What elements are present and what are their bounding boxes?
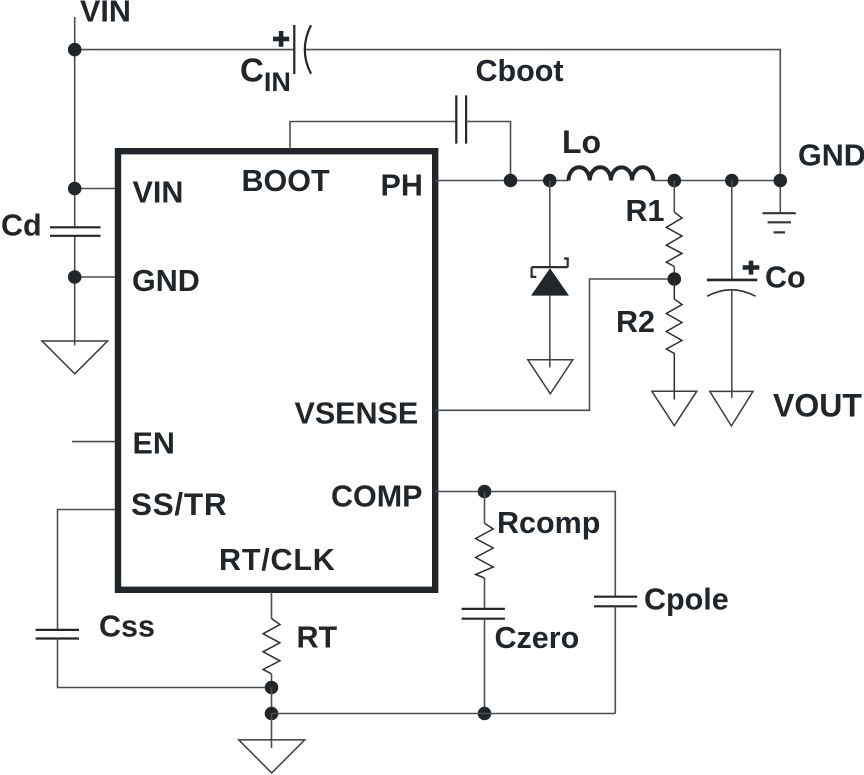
svg-text:VIN: VIN [133, 176, 184, 210]
wire EN stub [72, 441, 115, 443]
capacitor Co straight plate [707, 279, 757, 282]
capacitor Co curved plate [707, 290, 756, 296]
junction dot COMP [478, 485, 492, 499]
wire diode cathode to ground [549, 296, 551, 368]
resistor R2 [666, 279, 682, 400]
wire Rcomp top stub [484, 492, 486, 524]
wire left rail lower (below Cd) [74, 236, 76, 346]
svg-text:PH: PH [381, 169, 423, 203]
ground symbol below Co [710, 391, 753, 426]
svg-text:Lo: Lo [562, 124, 601, 160]
wire top rail VIN to CIN [75, 49, 294, 51]
svg-text:R1: R1 [626, 194, 665, 228]
svg-text:Cpole: Cpole [644, 583, 729, 617]
svg-text:BOOT: BOOT [242, 164, 330, 198]
wire R1 bottom stub [673, 267, 675, 280]
wire R1 top stub [673, 181, 675, 213]
wire Css bottom to RT node [58, 639, 272, 688]
wire COMP rail [435, 492, 615, 597]
junction dot Co top [725, 174, 739, 188]
capacitor Cd plates [50, 227, 101, 236]
wire RT node to bottom rail [271, 688, 273, 714]
capacitor Css plates [36, 630, 79, 639]
wire top rail CIN to GND corner [306, 50, 780, 213]
IC U1 box [118, 151, 435, 590]
capacitor Cboot plates [456, 95, 466, 143]
junction dot VIN top [68, 43, 82, 57]
resistor R1 [666, 212, 682, 266]
wire Rcomp to Czero [484, 578, 486, 609]
junction dot VIN pin [68, 182, 82, 196]
capacitor CIN plus sign [273, 31, 289, 47]
wire RT bottom stub [271, 674, 273, 688]
junction dot Czero bottom [478, 707, 492, 721]
wire RT/CLK pin stub [271, 592, 273, 619]
capacitor Cpole plates [594, 597, 637, 607]
svg-text:Cd: Cd [1, 209, 42, 243]
wire Co bottom stub [731, 290, 733, 398]
junction dot Cboot/PH [504, 174, 518, 188]
wire bottom rail [272, 713, 616, 715]
ground symbol below diode [528, 360, 573, 394]
resistor Rcomp [476, 523, 494, 578]
svg-text:RT: RT [297, 621, 338, 655]
svg-text:Co: Co [765, 261, 806, 295]
wire BOOT to Cboot [290, 122, 456, 150]
wire PH rail right part [653, 180, 780, 182]
svg-text:R2: R2 [616, 305, 655, 339]
svg-text:GND: GND [798, 139, 864, 173]
junction dot diode/PH [543, 174, 557, 188]
inductor Lo [569, 167, 654, 180]
capacitor CIN curved plate [305, 25, 311, 74]
svg-text:EN: EN [133, 427, 175, 461]
wire ground stub below rail [271, 714, 273, 749]
wire VIN pin stub [75, 188, 115, 190]
diode D1 schottky cathode bar [532, 259, 568, 277]
junction dot R1/R2 [668, 272, 682, 286]
ground symbol below Cd [42, 341, 108, 374]
svg-text:VOUT: VOUT [773, 388, 862, 424]
junction dot GND pin [68, 270, 82, 284]
svg-text:Czero: Czero [495, 621, 580, 655]
ground symbol earth GND [763, 213, 796, 232]
capacitor Co plus sign [743, 261, 760, 275]
junction dot Lo/R1 [668, 174, 682, 188]
capacitor Czero plates [462, 609, 505, 619]
wire SS/TR to Css [58, 510, 116, 630]
wire diode anode from PH [549, 181, 551, 268]
ground symbol below RT [239, 740, 305, 773]
svg-text:VSENSE: VSENSE [295, 397, 419, 431]
capacitor CIN straight plate [293, 25, 295, 74]
wire VSENSE feedback [435, 279, 674, 410]
wire VIN vertical left rail upper [74, 17, 76, 227]
wire Cpole bottom stub [614, 606, 616, 713]
svg-text:Cboot: Cboot [476, 54, 564, 88]
svg-text:VIN: VIN [80, 0, 131, 29]
wire PH rail left part [435, 180, 569, 182]
junction dot RT/Css [265, 681, 279, 695]
svg-text:Css: Css [99, 610, 155, 644]
wire Co top stub [731, 181, 733, 280]
junction dot GND rail [774, 174, 788, 188]
svg-text:RT/CLK: RT/CLK [219, 543, 336, 577]
svg-text:COMP: COMP [331, 480, 423, 514]
svg-text:GND: GND [132, 264, 200, 298]
ground symbol below R2 [652, 391, 697, 425]
wire Czero bottom stub [484, 619, 486, 714]
svg-text:Rcomp: Rcomp [497, 506, 600, 540]
wire Cboot to PH rail [466, 122, 510, 181]
resistor RT [263, 619, 280, 674]
wire GND pin stub [75, 276, 115, 278]
diode D1 body [531, 268, 569, 295]
junction dot bottom rail left [265, 707, 279, 721]
svg-text:SS/TR: SS/TR [131, 486, 227, 522]
